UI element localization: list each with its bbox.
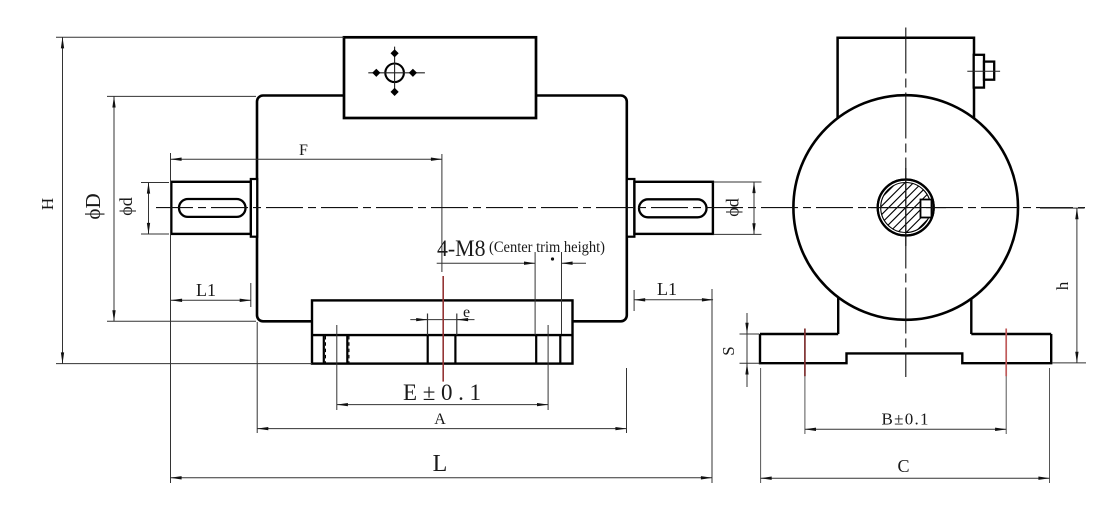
right leg [970, 299, 972, 334]
phiD extension bottom [107, 320, 256, 322]
svg-text:h: h [1053, 281, 1072, 290]
connector step 2 [984, 62, 994, 80]
svg-text:L1: L1 [196, 280, 216, 300]
B dimension line [805, 428, 1006, 430]
svg-text:e: e [463, 304, 470, 321]
phid-right extension bottom [714, 233, 762, 235]
phiD extension top [107, 95, 256, 97]
base slot line 5 [535, 335, 537, 364]
svg-text:F: F [299, 142, 308, 159]
horizontal centerline through shafts [156, 207, 1085, 209]
A extension right [626, 368, 628, 433]
L1 right dimension line [634, 299, 713, 301]
4-M8 extension line a [534, 252, 536, 335]
red centerline left view [442, 276, 444, 382]
e arrow right [457, 319, 465, 321]
svg-text:ϕd: ϕd [723, 198, 743, 216]
svg-text:C: C [897, 456, 909, 476]
F extension right [441, 154, 443, 272]
shaft hub inner circle [881, 183, 931, 233]
e dimension line [410, 319, 474, 321]
base slot hidden line 2 [348, 336, 350, 363]
h extension bottom [1052, 362, 1086, 364]
svg-text:A: A [434, 411, 446, 428]
svg-text:(Center trim height): (Center trim height) [489, 239, 605, 256]
H dimension extension top [56, 36, 344, 38]
svg-text:H: H [38, 198, 57, 210]
h extension top (centerline stub) [1040, 207, 1085, 209]
L extension right [711, 289, 713, 483]
svg-text:ϕd: ϕd [116, 197, 136, 215]
base outline [760, 334, 1051, 363]
right keyway [639, 199, 707, 217]
shared extension line left (F/L1/L) [170, 153, 172, 483]
base slot line 4 [454, 335, 456, 364]
phid-left extension bottom [141, 233, 169, 235]
right shaft [634, 182, 713, 234]
base slot hidden line 1 [325, 336, 327, 363]
svg-text:4-M8: 4-M8 [437, 236, 486, 261]
h dimension line [1076, 208, 1078, 363]
4-M8 dot [551, 257, 554, 260]
L1 left dimension line [171, 299, 251, 301]
svg-text:S: S [719, 346, 738, 355]
terminal box (side view) [838, 38, 974, 119]
C extension left [760, 368, 762, 483]
phid-left dimension line [148, 183, 150, 235]
E extension right [547, 325, 549, 410]
L1 left extension right [250, 283, 252, 307]
base slot line 6 [559, 335, 561, 364]
hub hatching [878, 180, 934, 236]
F dimension line [171, 158, 443, 160]
vertical centerline right view [905, 28, 907, 378]
S dimension line [746, 313, 748, 387]
hub centerline solid overlay [868, 168, 946, 246]
lifting-eye symbol circle [385, 64, 404, 83]
terminal box (front view) [344, 37, 536, 118]
red mounting hole line right [1005, 329, 1007, 377]
left keyway [179, 199, 246, 217]
phiD dimension line [113, 96, 115, 321]
S arrow top [746, 318, 748, 334]
S arrow bottom [746, 363, 748, 379]
connector centerline [967, 70, 1000, 72]
e extension tick a [427, 314, 429, 336]
symbol diamond left [372, 69, 380, 77]
right shaft collar [627, 179, 635, 237]
L dimension line [171, 477, 713, 479]
4-M8 dimension left segment [437, 262, 535, 264]
left shaft [171, 182, 251, 234]
S extension top [740, 333, 760, 335]
base top right segment [971, 333, 1051, 335]
C extension right [1049, 368, 1051, 483]
S extension bottom [740, 362, 760, 364]
symbol diamond bottom [390, 88, 398, 96]
base slot line 3 [427, 335, 429, 364]
svg-text:L1: L1 [657, 279, 677, 299]
4-M8 dimension right segment [562, 262, 587, 264]
base plate divider line [312, 334, 573, 336]
hub outer circle restroke [878, 180, 934, 236]
left leg [837, 297, 839, 334]
B extension right [1005, 376, 1007, 434]
motor body [257, 96, 627, 322]
H dimension extension bottom [56, 363, 312, 365]
mounting base plate (front view) [312, 300, 573, 363]
H dimension line [62, 37, 64, 363]
base top left segment [760, 333, 838, 335]
A dimension line [257, 428, 626, 430]
e extension tick b [456, 314, 458, 336]
svg-text:E±0.1: E±0.1 [403, 380, 481, 405]
4-M8 extension line b [561, 252, 563, 334]
symbol diamond right [409, 69, 417, 77]
e arrow left [419, 319, 427, 321]
L1 right extension left [633, 290, 635, 311]
A extension left [256, 322, 258, 433]
C dimension line [761, 477, 1050, 479]
svg-text:L: L [433, 451, 448, 477]
shaft hub outer circle [878, 180, 934, 236]
svg-text:ϕD: ϕD [81, 193, 105, 219]
phid-right dimension line [753, 182, 755, 234]
symbol diamond top [390, 49, 398, 57]
svg-text:B±0.1: B±0.1 [882, 410, 929, 429]
red mounting hole line left [804, 329, 806, 377]
connector step 1 [974, 55, 984, 88]
hub keyway [921, 200, 932, 218]
left shaft collar [251, 179, 257, 237]
motor circle [793, 95, 1018, 320]
E extension left [336, 325, 338, 410]
base slot line 1 [323, 335, 325, 364]
symbol crosshair [368, 47, 425, 95]
phid-left extension top [141, 182, 169, 184]
E dimension line [337, 404, 548, 406]
B extension left [804, 376, 806, 434]
phid-right extension top [714, 181, 762, 183]
base slot line 2 [346, 335, 348, 364]
